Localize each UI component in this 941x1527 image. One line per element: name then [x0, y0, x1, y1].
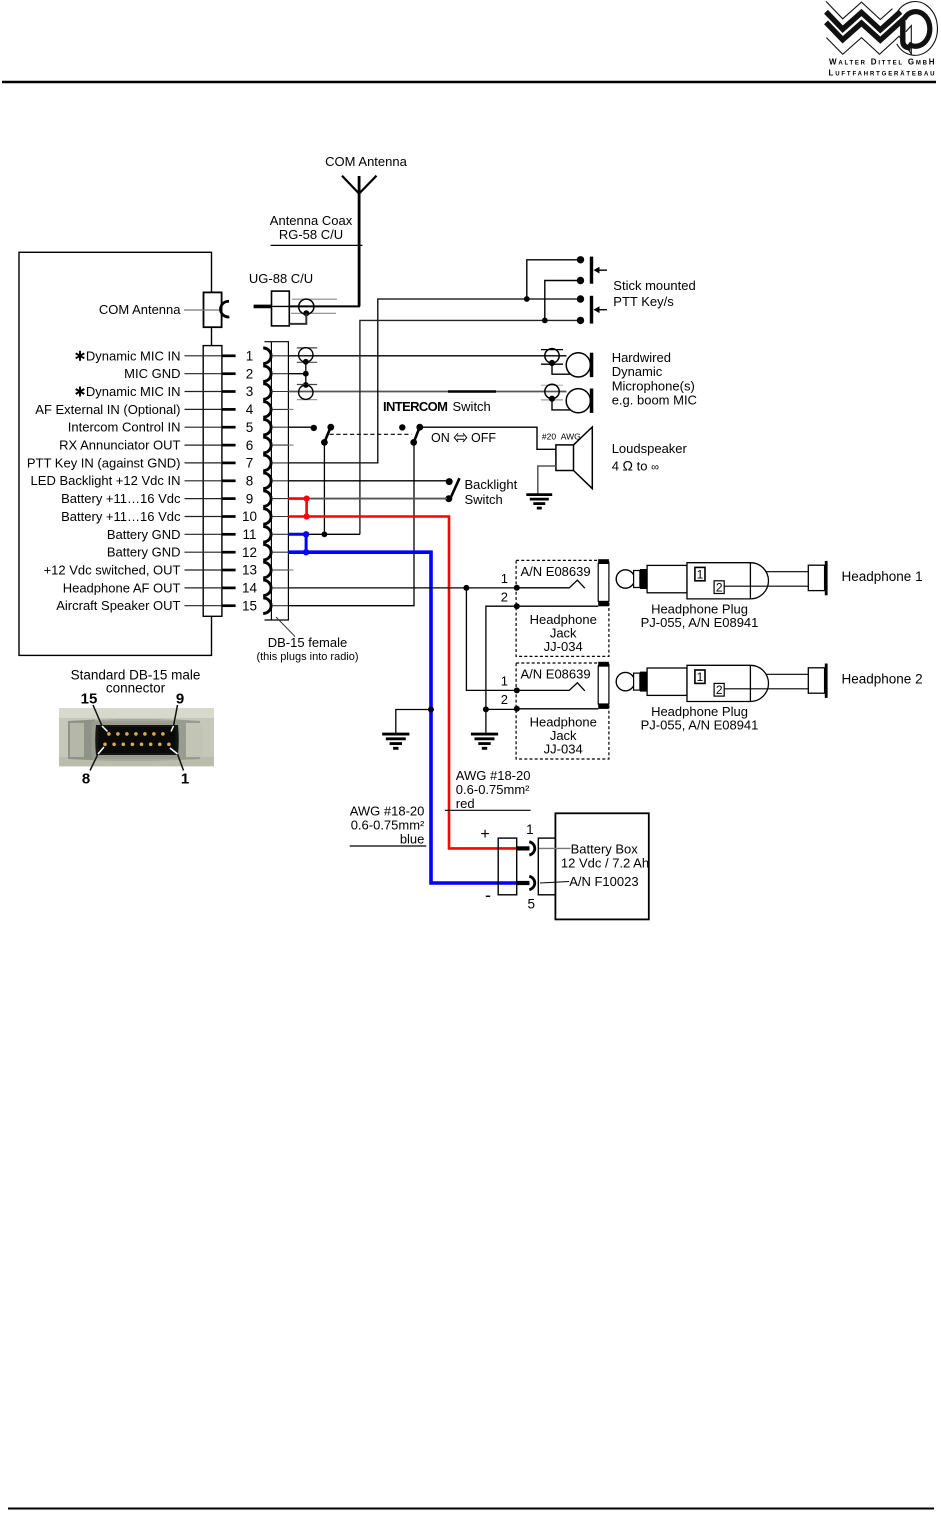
- wire pin 12 battery gnd to battery box (blue): [288, 552, 518, 883]
- wire PTT key1 bottom link: [545, 281, 581, 321]
- pin 5 lead line: [185, 426, 222, 428]
- wire pin 10 battery plus to battery box (red): [288, 517, 518, 849]
- pin 7 lead line: [185, 462, 222, 464]
- svg-text:UG-88 C/U: UG-88 C/U: [249, 271, 313, 286]
- headphone plug 2 tip: [616, 672, 634, 690]
- svg-text:9: 9: [246, 491, 254, 506]
- wire pin 3 dark segment: [448, 390, 496, 392]
- connector DB-15 female body: [265, 342, 289, 620]
- female contact 5: [263, 419, 271, 435]
- loudspeaker horn: [574, 427, 593, 489]
- junction dot PTT A: [524, 296, 530, 302]
- svg-text:Headphone AF OUT: Headphone AF OUT: [63, 580, 181, 595]
- plug 2 neck: [634, 673, 640, 690]
- ground loudspeaker: [526, 493, 552, 496]
- svg-text:COM Antenna: COM Antenna: [325, 154, 407, 169]
- svg-text:7: 7: [246, 456, 254, 471]
- svg-text:DB-15 female: DB-15 female: [268, 635, 347, 650]
- svg-text:Switch: Switch: [453, 399, 491, 414]
- plug 1 body: [687, 563, 750, 599]
- jack 2 tip contact: [517, 683, 585, 691]
- loudspeaker box: [556, 445, 574, 471]
- svg-text:e.g. boom MIC: e.g. boom MIC: [612, 393, 697, 408]
- svg-text:15: 15: [81, 691, 98, 708]
- female contact 10: [263, 509, 271, 525]
- battery box: [555, 813, 648, 919]
- pin 1 contact: [222, 354, 236, 357]
- shield loop circle: [299, 299, 314, 314]
- svg-text:PJ-055, A/N E08941: PJ-055, A/N E08941: [641, 615, 759, 630]
- svg-text:0.6-0.75mm²: 0.6-0.75mm²: [456, 782, 530, 797]
- switch intercom S1: [311, 424, 335, 446]
- svg-text:Switch: Switch: [465, 492, 503, 507]
- svg-text:Battery GND: Battery GND: [107, 527, 181, 542]
- female contact 4: [263, 402, 271, 418]
- pin 15 lead line: [185, 605, 222, 607]
- svg-text:-: -: [485, 885, 491, 905]
- pin 10 contact: [222, 515, 236, 518]
- svg-text:red: red: [456, 796, 475, 811]
- PTT button contacts: [577, 295, 584, 302]
- wire pin 11 battery gnd (blue): [288, 533, 306, 536]
- pin 1 lead line: [185, 355, 222, 357]
- svg-text:LED Backlight +12 Vdc IN: LED Backlight +12 Vdc IN: [31, 473, 181, 488]
- wire pin 5 Intercom Control: [288, 426, 313, 428]
- svg-text:+12 Vdc switched, OUT: +12 Vdc switched, OUT: [44, 563, 181, 578]
- plug 1 dome: [750, 563, 768, 599]
- battery contact arc 1: [529, 842, 534, 855]
- connector DB-15 male body: [203, 346, 222, 617]
- pin 13 contact: [222, 569, 236, 572]
- svg-text:4: 4: [246, 402, 254, 417]
- female contact 6: [263, 437, 271, 453]
- svg-text:JJ-034: JJ-034: [544, 639, 583, 654]
- svg-text:Battery Box: Battery Box: [571, 842, 639, 857]
- wire pin 14 headphone AF: [288, 587, 516, 589]
- svg-text:14: 14: [242, 581, 258, 596]
- svg-text:A/N E08639: A/N E08639: [521, 667, 591, 682]
- junction dot shield1: [303, 359, 309, 365]
- pin 11 contact: [222, 533, 236, 536]
- svg-text:3: 3: [246, 384, 254, 399]
- pin 4 contact: [222, 408, 236, 411]
- svg-text:Dynamic: Dynamic: [612, 364, 663, 379]
- pin 13 stub: [288, 569, 293, 571]
- switch speaker S2: [399, 424, 423, 446]
- junction dot blue 12: [303, 549, 309, 555]
- plug 1 neck: [634, 571, 640, 588]
- double arrow symbol: [454, 433, 466, 442]
- svg-text:1: 1: [246, 349, 254, 364]
- microphone 1 bar: [590, 353, 594, 377]
- junction dot PTT B: [542, 318, 548, 324]
- wire thick stub into UG-88: [254, 305, 272, 309]
- wire PTT ground line: [360, 320, 581, 534]
- svg-text:Hardwired: Hardwired: [612, 350, 671, 365]
- female contact 1: [263, 348, 271, 364]
- svg-text:AWG #18-20: AWG #18-20: [456, 768, 531, 783]
- svg-text:ON: ON: [431, 431, 450, 445]
- svg-text:1: 1: [181, 771, 189, 788]
- microphone 2 bar: [590, 389, 594, 413]
- plug 1 callout 2: [714, 581, 724, 594]
- microphone 1 shield dot: [549, 360, 555, 366]
- svg-text:PTT Key/s: PTT Key/s: [613, 294, 674, 309]
- jack 1 tip contact: [517, 580, 585, 588]
- leader 1: [178, 754, 184, 771]
- svg-text:8: 8: [82, 771, 90, 788]
- pin 12 lead line: [185, 551, 222, 553]
- svg-text:5: 5: [527, 897, 535, 912]
- junction dot blue to ground: [428, 707, 434, 713]
- plug 2 callout 1: [695, 670, 705, 683]
- pin 11 lead line: [185, 533, 222, 535]
- plug 2 callout 2: [714, 683, 724, 696]
- wire battery gnd to ground: [396, 710, 431, 734]
- wire pin 3 Dynamic MIC IN (gray): [288, 391, 566, 393]
- svg-text:PJ-055, A/N E08941: PJ-055, A/N E08941: [641, 718, 759, 733]
- svg-text:PTT Key IN (against GND): PTT Key IN (against GND): [27, 455, 181, 470]
- svg-text:2: 2: [246, 366, 254, 381]
- plug 2 dome: [750, 665, 768, 701]
- svg-text:Dynamic MIC IN: Dynamic MIC IN: [86, 348, 181, 363]
- svg-text:RG-58 C/U: RG-58 C/U: [279, 227, 343, 242]
- plug 1 band: [640, 569, 647, 589]
- pin 9 contact: [222, 497, 236, 500]
- wire jack1 sleeve to jack2 sleeve: [486, 606, 517, 709]
- photo DB-15 male connector: [59, 708, 214, 766]
- svg-text:Headphone 1: Headphone 1: [842, 569, 923, 584]
- plug 2 earpiece bar: [825, 664, 828, 698]
- ground battery gnd: [382, 733, 409, 736]
- svg-text:Battery +11…16 Vdc: Battery +11…16 Vdc: [61, 509, 181, 524]
- battery minus wire end: [517, 881, 530, 885]
- svg-text:1: 1: [501, 571, 508, 586]
- plug 2 band: [640, 672, 647, 692]
- pin 9 lead line: [185, 498, 222, 500]
- wire pin9 to backlight (gray): [307, 498, 447, 500]
- female contact 11: [263, 527, 271, 543]
- star mark pin 3: [76, 387, 85, 397]
- svg-text:INTERCOM: INTERCOM: [383, 399, 448, 414]
- microphone 1 capsule: [566, 353, 590, 377]
- wire pin 7 PTT key: [288, 299, 580, 463]
- PTT button bar: [590, 296, 593, 324]
- jack 1 bushing: [598, 563, 609, 601]
- plug 2 body: [687, 665, 750, 701]
- svg-text:1: 1: [501, 674, 508, 689]
- microphone 1 return wire: [552, 363, 572, 374]
- wire headphone AF to jack2: [466, 588, 516, 691]
- svg-text:Battery +11…16 Vdc: Battery +11…16 Vdc: [61, 491, 181, 506]
- pin 8 lead line: [185, 480, 222, 482]
- svg-text:+: +: [480, 826, 489, 843]
- svg-text:5: 5: [246, 420, 254, 435]
- svg-text:COM Antenna: COM Antenna: [99, 302, 181, 317]
- pin 8 contact: [222, 479, 236, 482]
- female contact 2: [263, 366, 271, 382]
- pin 10 lead line: [185, 516, 222, 518]
- plug 1 earpiece: [808, 565, 824, 590]
- pin 3 contact: [222, 390, 236, 393]
- svg-text:6: 6: [246, 438, 254, 453]
- microphone 1 shield stubs: [541, 349, 563, 351]
- svg-text:Luftfahrtgerätebau: Luftfahrtgerätebau: [829, 69, 935, 78]
- junction dot headphone AF: [463, 585, 469, 591]
- battery socket body: [538, 838, 555, 895]
- pin 5 contact: [222, 426, 236, 429]
- svg-text:Battery GND: Battery GND: [107, 545, 181, 560]
- wire S1 to ground bus: [323, 442, 325, 534]
- svg-text:Antenna Coax: Antenna Coax: [270, 213, 353, 228]
- wire S2 to loudspeaker: [420, 427, 556, 449]
- svg-text:4 Ω to ∞: 4 Ω to ∞: [612, 458, 659, 474]
- leader a/n: [540, 882, 569, 884]
- battery plus wire end: [517, 846, 530, 850]
- svg-text:(this plugs into radio): (this plugs into radio): [256, 651, 358, 663]
- wire loudspeaker lower to ground: [538, 466, 556, 495]
- wire pin 1 Dynamic MIC IN: [288, 355, 566, 357]
- photo pins top row: [107, 732, 165, 736]
- pin 6 contact: [222, 444, 236, 447]
- svg-text:2: 2: [501, 692, 508, 707]
- svg-text:2: 2: [716, 580, 723, 594]
- pin 3 lead line: [185, 391, 222, 393]
- pin 14 contact: [222, 587, 236, 590]
- svg-text:Intercom Control IN: Intercom Control IN: [68, 420, 181, 435]
- jack 2 bushing: [598, 666, 609, 704]
- svg-text:0.6-0.75mm²: 0.6-0.75mm²: [351, 818, 425, 833]
- pin 15 contact: [222, 604, 236, 607]
- female contact 14: [263, 580, 271, 596]
- pin 6 stub: [288, 444, 293, 446]
- shield stub lines pin1: [297, 347, 317, 349]
- plug 1 pin2 line: [719, 585, 808, 587]
- jack 2 sleeve wire: [517, 708, 598, 710]
- leader 8: [90, 754, 98, 771]
- leader DB-15 female: [276, 617, 295, 637]
- microphone 2 capsule: [566, 389, 590, 413]
- connector UG-88 body: [272, 291, 290, 326]
- PTT button arrow: [597, 269, 608, 271]
- svg-text:Microphone(s): Microphone(s): [612, 378, 695, 393]
- microphone 2 shield circle: [545, 384, 559, 398]
- svg-text:blue: blue: [400, 832, 425, 847]
- wire blue bus vertical: [305, 534, 308, 552]
- shield line lower: [291, 312, 336, 314]
- battery plug body: [498, 838, 517, 895]
- PTT button contacts: [577, 256, 584, 263]
- switch backlight: [445, 478, 459, 502]
- connector COM antenna socket body: [204, 292, 222, 327]
- svg-text:Headphone 2: Headphone 2: [842, 672, 923, 687]
- svg-text:#20 AWG: #20 AWG: [542, 432, 581, 442]
- svg-text:JJ-034: JJ-034: [544, 741, 583, 756]
- ground headphone sleeve: [471, 733, 498, 736]
- svg-text:1: 1: [526, 822, 534, 837]
- svg-text:AF External IN (Optional): AF External IN (Optional): [35, 402, 180, 417]
- junction dot blue 11: [303, 531, 309, 537]
- pin 13 lead line: [185, 569, 222, 571]
- female contact 7: [263, 455, 271, 471]
- svg-text:A/N E08639: A/N E08639: [521, 564, 591, 579]
- headphone jack 1 dashed box: [516, 560, 609, 656]
- pin 14 lead line: [185, 587, 222, 589]
- shield stub lines pin3: [297, 384, 317, 386]
- svg-text:Aircraft Speaker OUT: Aircraft Speaker OUT: [56, 598, 180, 613]
- female contact 8: [263, 473, 271, 489]
- leader battery box: [539, 847, 571, 849]
- junction dot red 9: [304, 496, 310, 502]
- svg-text:A/N F10023: A/N F10023: [569, 874, 638, 889]
- svg-text:Loudspeaker: Loudspeaker: [612, 441, 688, 456]
- svg-text:RX Annunciator OUT: RX Annunciator OUT: [59, 438, 180, 453]
- female contact 3: [263, 384, 271, 400]
- PTT button bar: [590, 257, 593, 284]
- shield circle pin3: [299, 385, 313, 399]
- antenna symbol: [342, 176, 377, 307]
- shield dot: [303, 310, 309, 316]
- svg-text:13: 13: [242, 563, 257, 578]
- wire pin 2 MIC GND: [288, 373, 305, 375]
- svg-text:8: 8: [246, 473, 254, 488]
- wire coax to UG-88: [289, 305, 360, 307]
- pin 2 lead line: [185, 373, 222, 375]
- pin 6 lead line: [185, 444, 222, 446]
- svg-text:MIC GND: MIC GND: [124, 366, 180, 381]
- COM antenna socket arc: [220, 301, 229, 317]
- logo Walter Dittel: [826, 1, 937, 77]
- svg-text:15: 15: [242, 598, 257, 613]
- female contact 9: [263, 491, 271, 507]
- svg-text:Dynamic MIC IN: Dynamic MIC IN: [86, 384, 181, 399]
- junction dot red 10: [304, 513, 310, 519]
- female contact 13: [263, 562, 271, 578]
- plug 1 barrel: [647, 565, 687, 592]
- top rule: [2, 81, 936, 84]
- wire pin 9 battery plus (red): [288, 497, 306, 500]
- svg-text:11: 11: [242, 527, 256, 542]
- female contact 15: [263, 598, 271, 614]
- radio unit box: [19, 252, 212, 655]
- plug 2 earpiece: [808, 668, 824, 693]
- shield return wire: [289, 313, 306, 324]
- svg-text:2: 2: [501, 590, 508, 605]
- svg-text:AWG #18-20: AWG #18-20: [350, 804, 425, 819]
- leader 15: [93, 705, 102, 726]
- plug 1 callout 1: [695, 567, 705, 580]
- plug 1 cable top: [766, 571, 809, 573]
- svg-text:Walter Dittel GmbH: Walter Dittel GmbH: [829, 58, 935, 67]
- shield bus at DB15: [305, 362, 307, 385]
- svg-text:12: 12: [242, 545, 257, 560]
- pin 4 lead line: [185, 408, 222, 410]
- wire red bus vertical: [305, 499, 308, 517]
- junction dot shield mid pin2: [303, 371, 309, 377]
- PTT button arrow: [597, 309, 608, 311]
- microphone 1 shield circle: [545, 349, 559, 363]
- svg-text:Backlight: Backlight: [465, 477, 518, 492]
- junction dot sleeve gnd: [483, 706, 489, 712]
- plug 1 earpiece bar: [825, 561, 828, 595]
- wire pin 8 backlight: [288, 480, 449, 482]
- bottom rule: [8, 1508, 934, 1510]
- svg-text:Stick mounted: Stick mounted: [613, 278, 695, 293]
- pin 12 contact: [222, 551, 236, 554]
- gang dashed link: [330, 433, 412, 435]
- wire COM antenna pin: [184, 309, 222, 311]
- microphone 2 shield dot: [549, 396, 555, 402]
- pin 7 contact: [222, 462, 236, 465]
- jack 1 sleeve wire: [517, 605, 598, 607]
- svg-text:1: 1: [697, 567, 704, 581]
- plug 2 pin2 line: [719, 688, 808, 690]
- shield line upper: [292, 298, 337, 300]
- microphone 2 shield stubs: [541, 384, 563, 386]
- headphone jack 2 dashed box: [516, 663, 609, 759]
- wire S2 to pin15: [288, 442, 414, 605]
- svg-text:connector: connector: [106, 681, 166, 696]
- junction dot shield3: [303, 382, 309, 388]
- headphone plug 1 tip: [616, 570, 634, 588]
- wire PTT key1 top link: [527, 260, 581, 299]
- junction dot gnd bus: [322, 531, 328, 537]
- battery contact arc 5: [529, 876, 534, 889]
- star mark pin 1: [76, 351, 85, 361]
- svg-text:12 Vdc / 7.2 Ah: 12 Vdc / 7.2 Ah: [561, 856, 649, 871]
- svg-text:10: 10: [242, 509, 257, 524]
- svg-text:2: 2: [716, 683, 723, 697]
- female contact 12: [263, 544, 271, 560]
- wire gnd link to switches (black): [306, 533, 360, 535]
- photo pins bottom row: [103, 743, 171, 747]
- microphone 2 return wire: [552, 399, 572, 410]
- pin 2 contact: [222, 372, 236, 375]
- pin 4 stub: [288, 408, 293, 410]
- leader 9: [174, 705, 178, 726]
- plug 2 cable top: [766, 673, 809, 675]
- wire sleeve to ground: [485, 709, 487, 732]
- shield circle pin1: [299, 348, 313, 362]
- svg-text:OFF: OFF: [471, 431, 496, 445]
- svg-text:1: 1: [697, 670, 704, 684]
- plug 2 barrel: [647, 668, 687, 695]
